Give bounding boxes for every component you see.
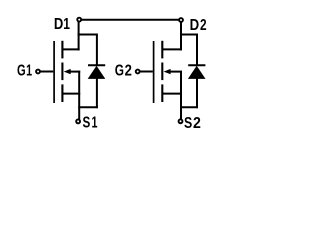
wire Q1 drain lead [63,48,80,50]
wire Q2 anode-to-source jog [180,106,198,108]
wire Q1 diode branch [78,35,97,65]
wire Q2 diode anode lead [196,78,198,108]
wire Q2 source riser [180,71,182,120]
svg-text:2: 2 [125,62,132,79]
transistor Q1 gate bar [53,41,55,103]
svg-text:G: G [17,63,26,80]
diode D2 body cathode bar [188,64,205,66]
diode D1 body anode triangle [88,66,106,79]
wire Q1 anode-to-source jog [78,106,98,108]
terminal G2 [136,70,140,74]
terminal S1 [76,119,80,123]
diode D2 body anode triangle [188,66,206,79]
svg-text:S: S [83,115,91,132]
wire Q1 diode anode lead [96,78,98,108]
transistor Q2 channel segments [161,41,163,102]
svg-text:D: D [54,16,63,33]
wire Q2 source lead [162,93,182,95]
svg-text:G: G [115,62,124,79]
transistor Q2 body arrow [164,69,171,74]
wire Q2 gate lead [140,71,153,73]
wire Q1 gate lead [40,71,53,73]
svg-text:1: 1 [92,115,98,132]
wire Q1 source lead [63,93,81,95]
svg-text:S: S [184,115,192,132]
svg-text:1: 1 [63,16,70,33]
terminal S2 [179,119,183,123]
terminal G1 [36,70,40,74]
wire Q2 drain riser [180,20,182,50]
wire Q2 drain lead [162,48,182,50]
terminal D1 [77,18,81,22]
wire Q1 body lead [70,71,81,73]
svg-text:2: 2 [200,17,207,34]
wire Q2 diode branch [180,35,197,65]
wire Q2 body lead [170,71,183,73]
svg-text:2: 2 [193,115,201,132]
transistor Q1 body arrow [64,69,71,74]
wire Q1 source riser [78,71,80,120]
svg-text:D: D [190,17,200,34]
wire top bus D1-D2 [81,19,179,21]
diode D1 body cathode bar [88,64,105,66]
transistor Q2 gate bar [153,41,155,103]
wire Q1 drain riser [78,20,80,50]
terminal D2 [179,18,183,22]
svg-text:1: 1 [26,63,32,80]
transistor Q1 channel segments [61,41,63,102]
